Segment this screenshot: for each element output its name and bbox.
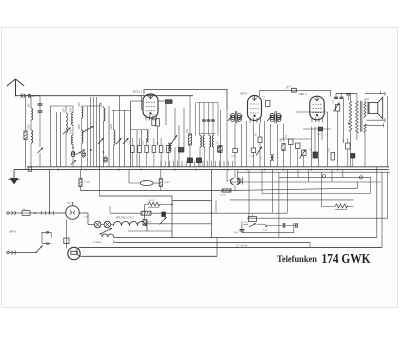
label 27-28V	[235, 245, 248, 247]
wire rail 206	[322, 206, 354, 208]
svg-text:10µF: 10µF	[263, 230, 269, 232]
wire bus B	[14, 169, 389, 171]
band section caps	[202, 120, 215, 121]
capacitor sub c2	[286, 223, 298, 228]
wire vert x235b	[234, 124, 236, 167]
speaker field winding	[348, 94, 352, 167]
component Ua	[160, 212, 167, 225]
coil column C	[100, 101, 105, 121]
coil column B1	[78, 102, 83, 118]
capacitor row C12	[142, 140, 149, 152]
capacitor sub box	[249, 214, 257, 222]
capacitor x66 box	[64, 238, 69, 244]
fuse Si	[22, 209, 30, 216]
svg-text:150: 150	[186, 128, 189, 133]
resistor mains dropper	[143, 219, 151, 225]
wire antenna lead	[16, 95, 41, 97]
wire vert left edge	[25, 97, 27, 170]
switch sub CU	[243, 222, 256, 227]
capacitor 50pF det	[255, 133, 263, 143]
capacitor feedback	[332, 99, 340, 111]
svg-text:0,1: 0,1	[262, 95, 265, 99]
wire vert x124	[124, 110, 126, 167]
svg-text:CU 2: CU 2	[244, 222, 250, 224]
wire 1M down	[283, 151, 285, 167]
wire link row130	[131, 129, 148, 131]
svg-text:240: 240	[27, 103, 30, 108]
wire rail 172	[238, 171, 390, 173]
resistor tone WW	[335, 204, 348, 210]
transformer OT core	[360, 101, 362, 132]
wire vert x141	[141, 96, 143, 146]
label Telefunken	[277, 255, 318, 265]
capacitor OT top	[346, 94, 350, 101]
tube CY2	[66, 202, 80, 219]
svg-text:0,1: 0,1	[142, 140, 145, 144]
wire rail 196	[99, 167, 172, 196]
wire feedback drops	[338, 99, 344, 167]
resistor NSW	[148, 199, 160, 207]
switch A4	[71, 147, 77, 165]
svg-text:27°- 28 V/n: 27°- 28 V/n	[235, 245, 248, 247]
capacitor antenna series	[21, 94, 34, 98]
antenna coil 1000	[27, 123, 32, 143]
capacitor row C11	[138, 146, 142, 153]
svg-text:0,1: 0,1	[128, 140, 131, 144]
svg-text:1000: 1000	[110, 123, 113, 129]
wire vert x90	[90, 97, 92, 167]
trimmer pair top	[334, 93, 344, 98]
capacitor ECH3 anode blob	[166, 100, 173, 104]
comb ticks	[161, 161, 232, 167]
wire rail 199	[230, 199, 354, 201]
svg-text:0,1: 0,1	[342, 138, 345, 142]
wire vert x277b	[277, 124, 279, 167]
coil spiral A3	[71, 151, 75, 156]
wire mains loop	[42, 232, 51, 243]
transformer IFT1	[228, 111, 243, 124]
variable cap C2	[98, 138, 104, 144]
variable cap feedback	[334, 103, 340, 112]
wire rail 237	[114, 236, 377, 238]
resistor det small	[217, 146, 220, 152]
label EF 9	[241, 92, 248, 96]
choke mains filter	[141, 211, 151, 215]
capacitor sub 50uF	[234, 229, 245, 234]
wire vert x157	[157, 126, 159, 146]
variable cap osc	[171, 135, 177, 144]
capacitor pad a	[188, 158, 193, 163]
wire lamp rail	[88, 224, 94, 226]
label ECH 3	[133, 90, 142, 94]
ground	[8, 178, 20, 185]
mains plug lower	[7, 251, 16, 255]
resistor 0.1M right	[159, 170, 170, 191]
svg-text:Telefunken: Telefunken	[277, 255, 318, 265]
variable cap T1	[116, 138, 122, 144]
variable cap T2	[123, 138, 129, 144]
switch dial	[100, 228, 112, 236]
svg-text:BF III: BF III	[10, 230, 16, 234]
wire vert x113	[113, 110, 115, 167]
wire x80 drop	[80, 170, 82, 191]
lamp La1	[94, 221, 101, 228]
label C13	[84, 217, 89, 219]
resistor Hv box	[328, 148, 335, 160]
wire rail 200	[172, 200, 212, 202]
wire out drops	[348, 138, 353, 167]
variable cap det	[256, 147, 263, 160]
coil spiral B3	[82, 152, 86, 157]
loop G symbol	[359, 176, 362, 179]
wire ground stem	[13, 170, 15, 178]
speaker terminal bar2	[365, 123, 384, 127]
junction dots bus	[57, 169, 338, 171]
wire rail 247	[80, 246, 382, 248]
resistor out a	[342, 138, 350, 149]
wire rail 218	[247, 217, 388, 219]
wire fuse to CY2	[30, 212, 66, 214]
resistor 1M	[280, 139, 285, 150]
switch S1b	[83, 126, 94, 132]
svg-text:1400: 1400	[100, 101, 103, 107]
capacitor 1uF line	[303, 127, 331, 136]
label heater chain	[116, 217, 134, 219]
wire 216 drop	[215, 201, 217, 214]
wire vert x119	[119, 96, 121, 167]
wire OT secondary leads	[365, 99, 369, 167]
svg-text:50µF: 50µF	[231, 156, 237, 158]
wire vert x130	[130, 101, 132, 167]
tube ECH3	[143, 94, 158, 121]
speaker terminal top	[365, 92, 385, 96]
svg-text:ECH 3: ECH 3	[133, 90, 142, 94]
wire C-row drops	[132, 153, 168, 167]
capacitor out b	[351, 154, 355, 159]
transformer OT secondary	[364, 103, 366, 133]
capacitor 50uF	[231, 149, 237, 158]
svg-text:0,1MΩ: 0,1MΩ	[84, 182, 91, 184]
capacitor pad b	[197, 158, 202, 163]
capacitor osc dark	[179, 148, 184, 153]
connector pair	[41, 211, 54, 215]
resistor 0.1M mid	[79, 179, 91, 187]
capacitor row C14	[156, 141, 163, 152]
wire NSW left	[145, 204, 172, 219]
oscillator coil pair	[168, 143, 172, 151]
capacitor input b	[38, 111, 43, 112]
svg-text:0,1: 0,1	[332, 99, 335, 103]
wire vert x96	[96, 97, 98, 167]
capacitor CBL1 cathode	[310, 148, 318, 158]
elco can	[68, 247, 86, 259]
wire vert x190	[189, 96, 191, 167]
capacitor on bus	[28, 167, 31, 171]
wire CY2 out	[79, 213, 88, 225]
svg-text:1M: 1M	[280, 139, 283, 142]
svg-text:0,1MΩ: 0,1MΩ	[164, 182, 171, 184]
wire EF9 topcap	[259, 90, 261, 96]
wire right edge drop	[387, 96, 389, 167]
label CY 2	[68, 201, 75, 205]
svg-text:1000: 1000	[27, 123, 30, 129]
wire rail left joins	[76, 237, 310, 256]
svg-text:(Dr): (Dr)	[143, 179, 147, 182]
wire vert x259b	[259, 124, 261, 138]
svg-text:CY 2: CY 2	[68, 201, 75, 205]
junction dots coil row	[73, 149, 104, 153]
heater chain	[114, 221, 146, 225]
wire rail 177	[279, 176, 371, 178]
resistor det-net a	[285, 134, 293, 145]
wire x211 vert	[211, 170, 213, 238]
wire rail 190	[81, 188, 358, 190]
svg-text:BF9 CBL1 CCH3: BF9 CBL1 CCH3	[116, 217, 134, 219]
label 4 50	[287, 86, 292, 88]
wire rail 231	[128, 230, 172, 232]
transformer IFT2	[267, 111, 282, 124]
coil column A2	[69, 128, 73, 145]
capacitor coupling 100	[286, 88, 297, 92]
wire lamps link	[101, 224, 114, 226]
capacitor row C15	[167, 146, 171, 153]
label 174 GWK	[322, 251, 372, 266]
svg-text:1000: 1000	[69, 128, 72, 134]
svg-text:Δ1,05: Δ1,05	[149, 199, 155, 202]
contact b	[46, 243, 48, 245]
wire vert x220	[220, 110, 222, 167]
svg-text:F skala: F skala	[94, 242, 102, 244]
wire mains upper	[9, 212, 22, 214]
wire vert x253b	[253, 124, 255, 167]
coil spiral D2	[104, 157, 108, 162]
svg-text:300: 300	[78, 102, 81, 107]
wire CBL1 grid cross	[296, 112, 327, 167]
svg-text:CBL 1: CBL 1	[299, 92, 308, 96]
band section loop	[196, 103, 219, 136]
svg-text:50µF: 50µF	[234, 232, 240, 234]
coil column D	[110, 123, 115, 145]
switch S1a	[63, 128, 71, 135]
svg-text:0,5 M: 0,5 M	[220, 195, 225, 197]
switch lower	[35, 246, 42, 254]
wire x66 vert	[65, 219, 67, 248]
speaker terminal bottom	[367, 118, 386, 122]
resistor det-net c	[302, 150, 307, 156]
wire vert x40	[39, 96, 41, 167]
junction mid dots	[171, 204, 212, 214]
wire CBL1 top bus	[336, 93, 357, 95]
resistor mixer	[217, 141, 222, 152]
svg-text:EF 9: EF 9	[241, 92, 248, 96]
wire x49 drop	[49, 170, 51, 213]
wire coilA stem	[72, 106, 74, 167]
wire heater out	[146, 220, 148, 232]
wire vert x241b	[241, 124, 243, 167]
svg-text:0,1: 0,1	[285, 134, 288, 138]
osc coil pair 2	[271, 155, 274, 161]
wire vert x137	[136, 130, 138, 167]
resistor 0.5M	[220, 189, 231, 197]
svg-text:240: 240	[69, 107, 72, 112]
wire vert x264b	[264, 121, 266, 167]
svg-text:NSW: NSW	[147, 222, 152, 224]
wire vert x175	[174, 108, 176, 167]
wire vert x60	[60, 112, 62, 167]
wire rail 213	[110, 212, 287, 214]
resistor det-net b	[296, 143, 301, 149]
wire CBL1 pin drops	[312, 127, 323, 167]
tube EF9	[248, 96, 262, 124]
wire vert x179	[178, 125, 180, 167]
wire EF9 top line	[260, 90, 331, 96]
capacitor input a	[38, 104, 43, 105]
wire band coil drops	[200, 147, 214, 167]
resistor left bias	[24, 131, 27, 140]
wire vert x109	[108, 106, 110, 167]
capacitor row C10	[128, 140, 135, 152]
switch x40	[38, 148, 44, 154]
choke Dr	[140, 179, 153, 185]
wire C-row tops	[132, 138, 161, 146]
speaker LS	[368, 97, 383, 119]
wire link 73top	[50, 105, 73, 107]
wire rail 256	[81, 255, 217, 257]
antenna coil 240	[27, 103, 32, 120]
svg-text:1000: 1000	[78, 123, 81, 129]
wire rail 223.8	[147, 223, 212, 225]
scale lamp chain	[102, 234, 114, 237]
wire bus A	[27, 166, 389, 168]
wire sub loop	[242, 221, 294, 233]
svg-text:555: 555	[62, 108, 65, 113]
wire link row110	[112, 109, 131, 111]
wire coilE stem	[65, 106, 67, 167]
loop symbol mid	[323, 175, 326, 178]
svg-text:0,1µF: 0,1µF	[249, 156, 255, 158]
antenna	[7, 79, 24, 96]
resistor EF9 anode	[262, 95, 270, 106]
switch det-net	[300, 150, 306, 159]
capacitor 2M coupling	[228, 179, 240, 185]
coil column A1	[69, 107, 73, 125]
wire x110 drop	[109, 206, 111, 213]
wire vert x283b	[283, 124, 285, 142]
svg-text:0,1: 0,1	[153, 113, 156, 117]
wire sub mid	[257, 224, 269, 231]
wire top bus	[33, 95, 193, 97]
resistor osc	[186, 128, 191, 145]
wire grid-cap loop ECH3	[144, 90, 227, 111]
wire rail 193	[262, 193, 371, 195]
coil osc left	[147, 130, 148, 142]
contact a	[46, 231, 48, 233]
choke loop	[129, 170, 161, 183]
wire right verticals	[238, 167, 388, 248]
label CBL 1	[299, 92, 308, 96]
lamp La2	[104, 221, 111, 228]
wire 50pF down	[259, 143, 261, 167]
label BF III	[10, 230, 16, 234]
wire vert x56	[56, 112, 58, 167]
wire vert x93	[93, 97, 95, 167]
capacitor ECH3 cathode	[153, 113, 160, 126]
wire ECH3 anode	[131, 101, 166, 125]
wire rail 242	[114, 241, 311, 243]
coil column B2	[78, 123, 83, 143]
wire vert x99	[98, 103, 100, 167]
wire rail 182	[230, 181, 381, 183]
capacitor sub c1	[266, 223, 285, 228]
wire vert x50	[49, 106, 51, 167]
wire x227 vert	[226, 170, 228, 182]
label Fskala	[94, 242, 102, 244]
resistor ECH3 grid	[149, 115, 156, 126]
switch S1c	[75, 150, 85, 156]
wire vert x103	[103, 106, 105, 167]
wire mains lower	[9, 252, 35, 254]
capacitor 0.1uF	[249, 148, 256, 158]
wire vert x184	[183, 108, 185, 152]
capacitor row C13	[152, 146, 156, 153]
wire coilB stem	[82, 106, 100, 170]
wire vert x228b	[226, 110, 228, 167]
wire vert x87	[87, 106, 89, 167]
wave band coils	[199, 134, 215, 148]
coil column E	[62, 108, 67, 133]
wire x172 vert	[171, 196, 173, 237]
mains plug upper	[7, 211, 16, 215]
wire det-net	[281, 139, 311, 167]
wire vert x31	[30, 96, 32, 167]
svg-text:174 GWK: 174 GWK	[322, 251, 372, 266]
wire vert x246b	[246, 121, 248, 167]
jack icon	[238, 178, 243, 185]
tube CBL1	[310, 96, 324, 122]
wire vert x270b	[270, 124, 272, 167]
wire 2M drop	[234, 170, 236, 191]
transformer OT primary	[356, 93, 359, 140]
